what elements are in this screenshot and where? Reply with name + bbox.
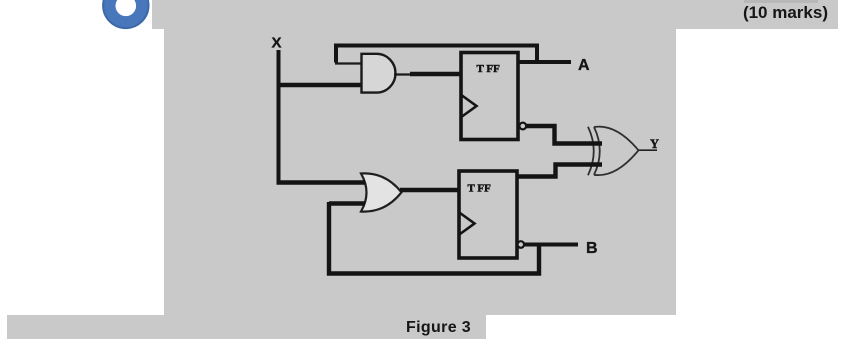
xor-gate G3 [588,127,639,176]
wire X corner to OR upper input [277,180,366,184]
wire OR output to FF2 T input [400,188,460,192]
caption strip background [7,315,486,339]
svg-text:B: B [586,240,598,257]
wire feedback B to OR lower input [329,201,365,205]
t-flip-flop U2 box [459,171,517,258]
t-flip-flop U1 box [461,53,518,140]
wire X vertical [277,50,281,183]
svg-text:X: X [272,35,282,52]
bubble Qbar U2 [518,241,525,248]
clock triangle U2 [460,213,475,234]
bubble Qbar U1 [519,123,526,130]
scan background darker notch top right [744,0,818,3]
wire feedback A to AND gate upper input [336,46,537,63]
wire AND output to FF1 T input [394,73,414,75]
wire Q of U1 to node A [518,60,571,64]
wire elbow into AND upper input [335,62,362,64]
svg-text:Y: Y [650,137,659,151]
wire XOR output to Y [639,149,658,151]
and-gate G1 [362,54,396,93]
wire X to AND gate lower input [277,83,364,88]
wire feedback from B down and left to OR input [329,202,539,274]
scan background top strip [152,0,838,29]
svg-text:T FF: T FF [468,183,492,195]
text (10 marks) [640,3,828,25]
clock triangle U1 [462,96,477,117]
wire Qbar U1 to XOR upper input [526,126,602,144]
svg-text:A: A [578,57,590,74]
text Figure 3 [406,319,471,337]
svg-text:T FF: T FF [477,63,501,75]
wire Q of U2 to XOR lower input [517,165,602,177]
wire Qbar U2 to node B [524,243,578,247]
blue donut bullet [101,0,151,30]
figure scan background [164,27,676,315]
or-gate G2 [361,173,402,211]
